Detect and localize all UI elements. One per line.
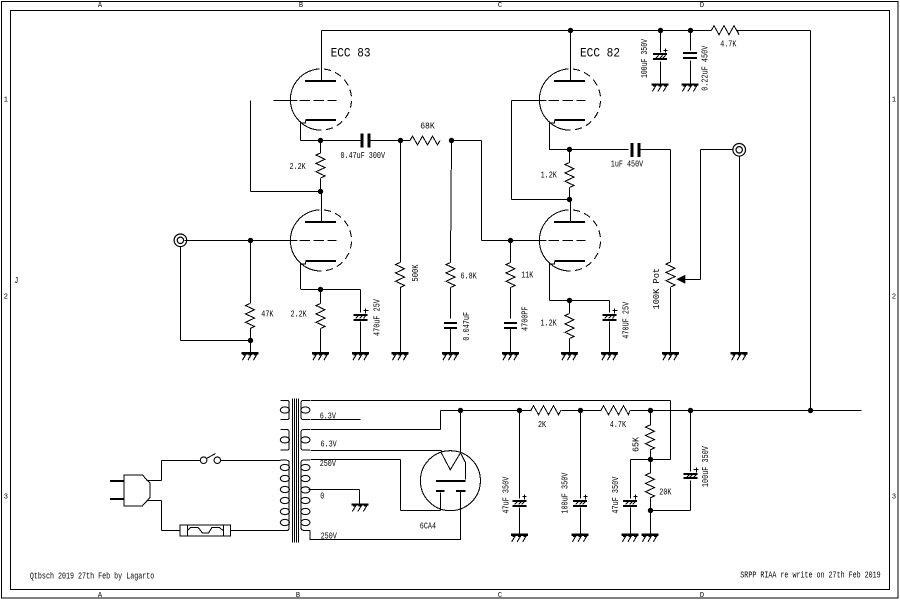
capacitor 0.47uF 300V (341, 134, 401, 161)
capacitor 100uF 350V (across divider) (651, 411, 712, 511)
resistor 2K (531, 406, 561, 430)
wire 6.3V heater to bias divider (311, 401, 671, 460)
svg-text:0.22uF 450V: 0.22uF 450V (700, 45, 710, 91)
switch SW (200, 454, 220, 464)
output jack (733, 144, 746, 157)
svg-text:0.047uF: 0.047uF (462, 312, 472, 341)
frame zone letters bottom (98, 592, 704, 600)
wire 250V top to rectifier anode1 (311, 460, 441, 511)
svg-text:SRPP RIAA re write on 27th Feb: SRPP RIAA re write on 27th Feb 2019 (740, 571, 880, 581)
svg-text:6CA4: 6CA4 (420, 522, 436, 532)
junction 100uF350V-2 node (688, 408, 693, 413)
svg-text:J: J (14, 276, 18, 286)
svg-text:4.7K: 4.7K (610, 420, 627, 430)
junction ECC83 cathode node (318, 138, 323, 143)
svg-text:4700PF: 4700PF (521, 306, 531, 331)
junction 68K right (449, 138, 454, 143)
junction ECC82 grid node (508, 238, 513, 243)
ground 0.22uF (682, 83, 699, 85)
ground input (242, 352, 259, 354)
capacitor 47uF 350V (first filter) (501, 411, 526, 534)
svg-text:ECC 82: ECC 82 (580, 46, 620, 60)
wire 6.3V winding2 to rectifier cathode rail (311, 411, 461, 430)
wire 20K bottom to ground (650, 511, 652, 534)
resistor 4.7K (top right) (712, 26, 740, 35)
wire plug to fuse (147, 501, 181, 531)
tube ECC83 upper triode (290, 70, 321, 130)
svg-text:11K: 11K (521, 271, 534, 281)
junction 0.22uF 450V at rail (688, 28, 693, 33)
capacitor 0.047uF (444, 312, 472, 353)
junction ECC82 plate at rail (568, 28, 573, 33)
wire 6CA4 cathode to rail (460, 411, 462, 453)
junction 100uF 350V at rail (658, 28, 663, 33)
svg-text:20K: 20K (659, 488, 672, 498)
svg-text:1: 1 (892, 97, 896, 105)
wire 6.3V winding2 to rectifier heater (311, 450, 442, 452)
svg-text:1: 1 (4, 97, 8, 105)
svg-text:65K: 65K (631, 436, 641, 452)
resistor 1.2K (ECC82 upper cathode) (541, 150, 574, 200)
svg-text:6.8K: 6.8K (461, 272, 478, 282)
wire B+ top rail (322, 30, 712, 32)
transformer secondary 6.3V winding1 (301, 400, 310, 419)
ground 4700PF (502, 352, 519, 354)
capacitor 470uF 25V (ECC83 cathode bypass) (354, 290, 383, 353)
mains plug (110, 475, 150, 506)
transformer primary winding (280, 460, 289, 530)
svg-text:Qtbsch 2019 27th Feb by Lagart: Qtbsch 2019 27th Feb by Lagarto (30, 572, 154, 582)
ground divider (642, 534, 659, 536)
svg-text:D: D (700, 2, 704, 10)
svg-text:1.2K: 1.2K (541, 171, 558, 181)
wire ECC82 upper cathode (550, 121, 629, 150)
resistor 2.2K (ECC83 upper cathode) (290, 141, 326, 192)
ground 47uF first (511, 534, 528, 536)
junction ECC83 SRPP midpoint (318, 189, 323, 194)
frame zone numbers left (4, 97, 8, 502)
junction 100uF node (578, 408, 583, 413)
tube ECC83 lower triode (290, 211, 321, 271)
svg-text:100uF 350V: 100uF 350V (560, 472, 570, 513)
svg-text:47uF 350V: 47uF 350V (611, 476, 621, 513)
ground 470UF 25V (601, 352, 618, 354)
transformer primary mirror winding top2 (280, 430, 289, 451)
ground 2.2K lower (312, 352, 329, 354)
svg-text:0: 0 (320, 492, 324, 502)
resistor 68K (410, 121, 440, 145)
svg-text:C: C (498, 592, 502, 600)
ground 100K pot (662, 352, 679, 354)
svg-text:470uF 25V: 470uF 25V (372, 299, 382, 336)
junction ECC82 SRPP midpoint (567, 197, 572, 202)
svg-text:0.47uF 300V: 0.47uF 300V (341, 151, 386, 161)
ground 500K (392, 352, 409, 354)
transformer core (293, 399, 299, 543)
junction 47K bottom (248, 338, 253, 343)
svg-text:100K Pot: 100K Pot (652, 268, 662, 310)
wire 6.3V winding1 stub (311, 419, 361, 421)
ground 100uF second (572, 534, 589, 536)
svg-text:100uF 350V: 100uF 350V (701, 446, 711, 487)
wire 1uF to pot (670, 150, 672, 263)
tube ECC82 upper triode (539, 70, 570, 130)
svg-text:470UF 25V: 470UF 25V (621, 301, 631, 338)
wire input to grid (185, 240, 298, 242)
potentiometer 100K Pot (652, 262, 675, 353)
capacitor 100uF 350V (top) (660, 31, 662, 53)
wire ECC82 upper grid feedback (512, 101, 570, 200)
ground 0.047uF (442, 352, 459, 354)
wire 68K left lead (401, 140, 411, 142)
wire plug to switch (147, 461, 201, 481)
svg-text:1uF 450V: 1uF 450V (611, 159, 644, 169)
svg-text:2.2K: 2.2K (291, 310, 308, 320)
resistor 11K (506, 241, 534, 319)
wire switch to transformer (221, 460, 281, 462)
ground 100uF top (652, 83, 669, 85)
resistor 4.7K (psu) (601, 406, 630, 430)
frame zone letters top (98, 2, 704, 10)
svg-text:2K: 2K (538, 420, 547, 430)
svg-text:4.7K: 4.7K (720, 39, 737, 49)
pot wiper arrow (676, 150, 732, 284)
svg-text:3: 3 (4, 494, 8, 502)
svg-text:B: B (299, 2, 303, 10)
svg-text:47K: 47K (261, 310, 274, 320)
wire B+ riser right (810, 31, 812, 411)
junction 65K node (648, 408, 653, 413)
resistor 2.2K (ECC83 lower cathode) (291, 290, 326, 353)
junction heater bias node (648, 457, 653, 462)
wire fuse to transformer (231, 530, 281, 532)
junction ECC82 lower cathode node (567, 298, 572, 303)
ground center tap (352, 503, 369, 505)
ground 1.2K lower (561, 352, 578, 354)
resistor 1.2K (ECC82 lower cathode) (541, 301, 575, 353)
svg-text:C: C (498, 2, 502, 10)
wire 250V bottom to rectifier anode2 (310, 492, 460, 540)
transformer secondary HV winding 250-0-250 (301, 460, 310, 530)
capacitor 0.22uF 450V (690, 31, 692, 51)
svg-text:100uF 350V: 100uF 350V (640, 39, 650, 78)
svg-text:2.2K: 2.2K (290, 162, 307, 172)
wire 68K to ECC82 grid (452, 141, 511, 241)
frame zone numbers right (892, 97, 896, 502)
transformer primary mirror winding top1 (280, 400, 289, 419)
svg-text:D: D (700, 592, 704, 600)
wire ECC83 upper cathode (301, 121, 362, 141)
wire 0 center tap to ground (309, 490, 360, 504)
resistor 65K (631, 411, 654, 460)
wire B+ dc rail (461, 410, 862, 412)
wire B+ rail after 4.7K (738, 30, 811, 32)
svg-text:2: 2 (892, 294, 896, 302)
svg-text:2: 2 (4, 294, 8, 302)
capacitor 47uF 350V (bias filter) (611, 460, 651, 534)
junction 47uF node (517, 408, 522, 413)
svg-text:6.3V: 6.3V (321, 439, 338, 449)
junction 20K bottom node (648, 508, 653, 513)
wire output jack ground leg (739, 157, 741, 353)
svg-text:68K: 68K (420, 121, 435, 131)
ground output jack (731, 352, 748, 354)
tube ECC82 lower triode (539, 211, 570, 271)
svg-text:500K: 500K (411, 264, 421, 282)
resistor 500K (396, 141, 421, 353)
junction ECC82 cathode node (567, 147, 572, 152)
ground 470uF 25V (352, 352, 369, 354)
junction 500K node (398, 138, 403, 143)
junction rectifier output (458, 408, 463, 413)
wire ECC83 upper grid feedback (251, 101, 321, 192)
junction ECC83 lower cathode node (318, 287, 323, 292)
capacitor 470UF 25V (ECC82 cathode bypass) (603, 301, 632, 353)
capacitor 1uF 450V (output coupling) (611, 143, 671, 170)
transformer secondary 6.3V winding2 (301, 430, 310, 451)
svg-text:B: B (296, 592, 300, 600)
resistor 20K (646, 460, 672, 511)
wire ECC82 lower cathode (550, 262, 610, 301)
svg-text:250V: 250V (320, 459, 337, 469)
svg-text:ECC 83: ECC 83 (331, 46, 371, 60)
ground 47uF bias (622, 534, 639, 536)
svg-text:47uF 350V: 47uF 350V (501, 476, 511, 513)
input jack (174, 234, 187, 247)
resistor 47K (input load) (246, 241, 274, 353)
svg-text:3: 3 (892, 494, 896, 502)
wire input jack ground leg (181, 247, 251, 341)
resistor 6.8K (446, 141, 477, 319)
svg-text:1.2K: 1.2K (541, 318, 558, 328)
capacitor 100uF 350V (second filter) (560, 411, 587, 534)
tube 6CA4 rectifier (420, 451, 480, 511)
junction input node (248, 238, 253, 243)
wire ECC83 lower cathode (301, 262, 361, 290)
fuse F1 (180, 525, 231, 537)
junction riser at dc rail (808, 408, 813, 413)
capacitor 4700PF (504, 306, 531, 352)
